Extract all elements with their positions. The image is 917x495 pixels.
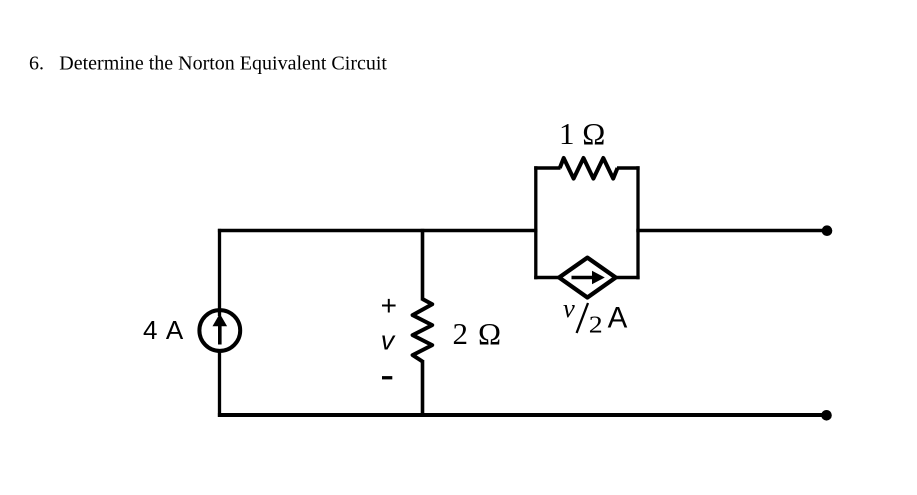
dependent current source U1 diamond <box>559 258 616 298</box>
label v/2 A <box>563 293 628 338</box>
svg-text:2: 2 <box>589 311 603 338</box>
wire: 2-ohm branch upper segment <box>421 229 425 301</box>
svg-text:+: + <box>381 290 397 321</box>
svg-text:2 Ω: 2 Ω <box>453 316 503 351</box>
wire: parallel block top-left stub <box>534 166 560 170</box>
wire: top rail right segment <box>636 229 827 232</box>
wire: parallel block left vertical <box>534 166 537 279</box>
terminal a (top dot) <box>822 225 833 236</box>
wire: left branch lower segment <box>218 351 221 417</box>
wire: parallel block bottom-right stub <box>614 276 640 280</box>
dependent current source U1 arrow <box>572 271 605 285</box>
svg-text:6.Determine the Norton Equival: 6.Determine the Norton Equivalent Circui… <box>29 53 387 75</box>
label minus sign <box>382 376 392 379</box>
svg-text:1 Ω: 1 Ω <box>559 116 605 151</box>
wire: parallel block top-right stub <box>617 166 640 170</box>
svg-text:4 A: 4 A <box>143 315 185 345</box>
wire: top rail left segment <box>218 229 538 232</box>
wire: parallel block right vertical <box>636 166 639 279</box>
wire: parallel block bottom-left stub <box>534 276 561 280</box>
wire: bottom rail <box>218 413 827 417</box>
current source I1 arrow <box>213 314 228 345</box>
svg-text:v: v <box>563 293 575 323</box>
wire: left branch upper segment <box>218 229 221 316</box>
resistor R2 (2 ohm) zigzag <box>413 299 433 362</box>
wire: 2-ohm branch lower segment <box>421 360 425 417</box>
current source I1 circle <box>199 310 240 351</box>
resistor R1 (1 ohm) zigzag <box>560 158 618 179</box>
terminal b (bottom dot) <box>821 410 832 421</box>
svg-text:A: A <box>608 301 628 334</box>
svg-text:v: v <box>381 325 396 355</box>
